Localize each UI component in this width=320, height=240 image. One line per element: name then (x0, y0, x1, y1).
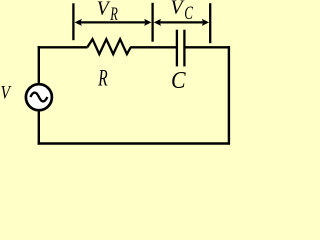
AC source sine wave (30, 93, 47, 102)
svg-text:V: V (97, 0, 111, 20)
capacitor C right plate (183, 30, 185, 67)
svg-text:C: C (171, 66, 186, 93)
AC source V (circle) (26, 84, 52, 110)
resistor R (zigzag) (87, 39, 130, 54)
V_R dimension arrow line (77, 21, 149, 23)
wire: resistor to capacitor (130, 46, 176, 48)
tick mark middle (V_R end / V_C start) (151, 3, 153, 42)
wire: top-left horizontal segment to resistor (38, 46, 88, 48)
capacitor C left plate (176, 30, 178, 67)
wire: right vertical (228, 46, 230, 145)
wire: capacitor to top-right corner (185, 46, 230, 48)
tick mark left (V_R start) (72, 3, 74, 40)
wire: left vertical upper (corner to source) (38, 46, 40, 85)
V_R arrowhead left (75, 19, 82, 26)
V_C arrowhead left (154, 19, 161, 26)
tick mark right (V_C end) (209, 3, 211, 43)
wire: bottom horizontal (38, 142, 230, 144)
wire: left vertical lower (source to bottom corner) (38, 110, 40, 145)
V_R arrowhead right (144, 19, 151, 26)
svg-text:C: C (184, 2, 194, 24)
V_C dimension arrow line (156, 21, 206, 23)
V_C arrowhead right (202, 19, 209, 26)
svg-text:R: R (98, 66, 108, 92)
svg-text:R: R (109, 5, 117, 25)
